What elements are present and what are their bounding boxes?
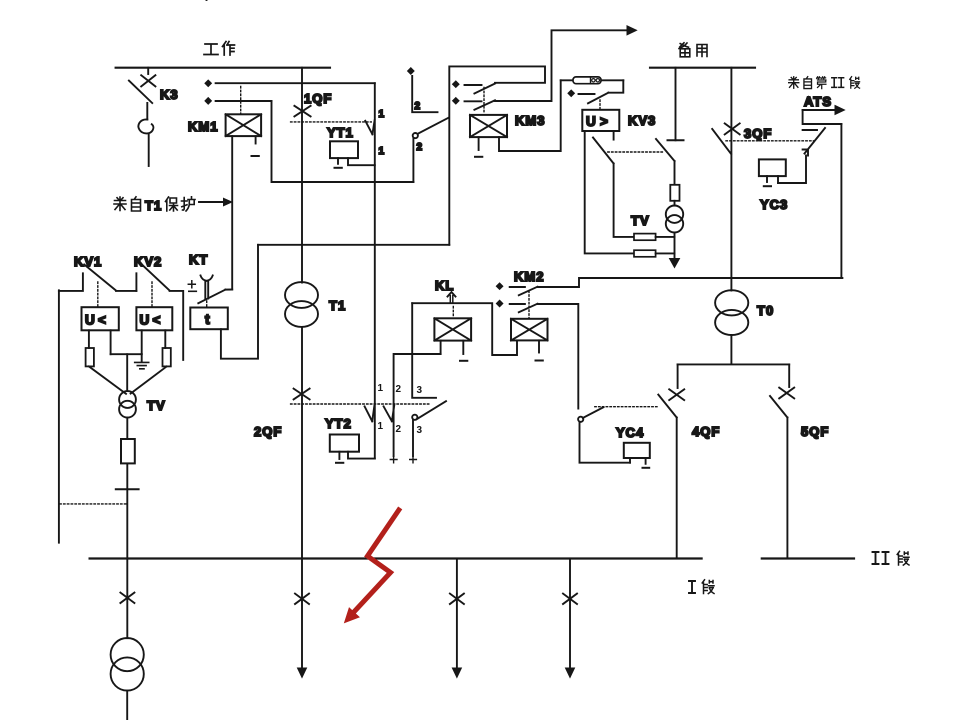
- svg-text:1QF: 1QF: [304, 91, 332, 106]
- svg-text:4QF: 4QF: [692, 424, 720, 439]
- svg-text:1: 1: [379, 109, 385, 120]
- svg-text:2: 2: [417, 142, 423, 153]
- svg-text:1: 1: [379, 146, 385, 157]
- svg-text:YC4: YC4: [616, 425, 644, 440]
- wire fuse to TV primary: [89, 366, 126, 393]
- svg-text:2: 2: [396, 424, 402, 435]
- relay box KV1 (U<): [82, 307, 119, 330]
- svg-text:YT1: YT1: [327, 125, 354, 140]
- actuator arrow above KL: [448, 292, 456, 303]
- svg-text:T1: T1: [145, 198, 162, 213]
- svg-text:T0: T0: [757, 303, 774, 318]
- voltage transformer TV (left): [119, 391, 136, 418]
- wire far-left riser: [58, 290, 60, 542]
- mechanical link YC4 dotted: [595, 406, 659, 408]
- wire TV left down to bus: [126, 418, 128, 559]
- label 工作 (working bus): [204, 42, 235, 56]
- wire KV1 bottom-left to fuse: [88, 330, 90, 348]
- transformer (bottom left): [111, 638, 144, 691]
- svg-text:3QF: 3QF: [744, 126, 772, 141]
- voltage transformer TV (right): [666, 201, 683, 233]
- svg-text:KV3: KV3: [628, 113, 656, 128]
- mechanical link KV3 dotted: [599, 100, 601, 109]
- transformer T1: [285, 282, 318, 327]
- bus: section I bus: [90, 557, 702, 559]
- fuse (below TV left): [121, 439, 135, 463]
- svg-text:3: 3: [417, 425, 423, 436]
- fuse FU5 (TV right lower): [634, 250, 656, 257]
- trip switch contact 3: terminal, pivot, blade: [412, 303, 446, 456]
- svg-text:1: 1: [378, 421, 384, 432]
- mechanical link KV1 dotted: [97, 282, 99, 307]
- svg-text:U: U: [586, 114, 596, 129]
- wire 3QF feeder to T0: [730, 68, 732, 291]
- fuse FU1 (left of TV): [86, 348, 94, 366]
- breaker 3QF blade: [712, 129, 731, 154]
- breaker 2QF X: [294, 389, 310, 400]
- label 来自第II段 (from section II): [789, 77, 860, 89]
- breaker 5QF: [770, 364, 794, 558]
- fault bolt (red lightning arrow): [346, 510, 399, 621]
- trip contact 2 lower V-blade: [384, 404, 395, 421]
- svg-text:KT: KT: [189, 252, 208, 267]
- svg-text:TV: TV: [147, 398, 166, 413]
- wire KM3-aux riser x=449: [449, 66, 545, 244]
- mechanical link KL dotted: [452, 307, 454, 318]
- breaker K3: [129, 68, 156, 166]
- switch YC4-link: pivot and blade: [578, 407, 630, 463]
- feeder breaker X (left transformer feeder): [120, 593, 134, 603]
- svg-text:>: >: [600, 114, 608, 129]
- solenoid YT1: [330, 141, 375, 168]
- svg-text:2QF: 2QF: [254, 424, 282, 439]
- wire ATS riser to control line: [840, 124, 842, 278]
- relay contact KV1: [59, 265, 136, 291]
- svg-text:YC3: YC3: [760, 197, 788, 212]
- mechanical link TV-switch dotted: [60, 503, 126, 505]
- bus: section II bus: [762, 557, 854, 559]
- mechanical link 3QF-ATS dashed: [726, 140, 814, 142]
- svg-text:3: 3: [417, 385, 423, 396]
- svg-text:<: <: [153, 313, 161, 328]
- breaker 1QF X: [294, 106, 310, 117]
- fuse FU6 (standby TV): [670, 185, 679, 201]
- label I段: [689, 580, 714, 594]
- contactor KM2 aux contact row 2: [496, 300, 578, 408]
- contactor coil KM3: [470, 80, 561, 157]
- ground arrow (TV right): [670, 259, 680, 268]
- ATS transfer switch with arrow: [778, 106, 845, 184]
- svg-text:KM3: KM3: [515, 113, 545, 128]
- contactor KM2 aux contact row 1: [496, 278, 842, 295]
- svg-text:T1: T1: [329, 298, 346, 313]
- pin labels 1 2 3 lower row: [378, 421, 423, 436]
- relay contact KV2: [136, 264, 183, 360]
- relay box KV3 (U>): [582, 110, 619, 131]
- wire fuses to TV right: [656, 237, 675, 254]
- breaker 4QF: [658, 364, 684, 558]
- bus: standby section bus: [650, 67, 755, 69]
- wire KV2 bottom-right to fuse: [164, 330, 166, 348]
- relay box KV2 (U<): [136, 307, 172, 330]
- svg-text:5QF: 5QF: [801, 424, 829, 439]
- wire KV1 right / KV2 left bottom rail: [111, 330, 142, 391]
- feeder 3 (x=457) below bus: [450, 559, 464, 678]
- solenoid YC3-lower YC4: [624, 443, 650, 468]
- svg-text:TV: TV: [631, 213, 650, 228]
- trip contact 2 upper: terminal and blade: [207, 0, 449, 182]
- mechanical link KM1 dotted: [240, 87, 242, 115]
- wire feeder T1 upper (1QF line): [301, 68, 303, 283]
- bus: working section bus: [116, 67, 330, 69]
- wire transformer to edge: [126, 691, 128, 720]
- mechanical link KM3 dotted: [483, 88, 485, 115]
- svg-text:2: 2: [396, 384, 402, 395]
- wire fuse to TV primary right: [131, 366, 167, 393]
- svg-text:KM2: KM2: [514, 269, 544, 284]
- fuse FU3 (control supply): [561, 77, 624, 84]
- svg-text:YT2: YT2: [325, 416, 352, 431]
- contactor KM1 aux contact row 1: [205, 80, 375, 87]
- feeder 4 (x=570) below bus: [563, 559, 577, 678]
- contactor coil KM2: [412, 303, 547, 360]
- control rail y=244.8: [258, 244, 449, 246]
- polarity mark + (wire 3 bottom): [410, 456, 417, 463]
- trip contact 1 lower V-blade: [365, 404, 375, 421]
- fuse FU2 (right of TV): [163, 348, 171, 366]
- wire T1 to 2QF to bus I: [301, 327, 303, 559]
- wire TV right to ground: [674, 233, 676, 260]
- label II段: [873, 551, 910, 565]
- wire trip circuit 2 (KL branch): [394, 354, 441, 456]
- svg-text:U: U: [140, 313, 150, 328]
- wire trip circuit 1 (vertical x=375): [374, 83, 376, 458]
- ground (KV measuring circuit): [135, 354, 149, 369]
- pin labels 1 2 3 upper row: [378, 383, 423, 396]
- wire KM1 coil bottom to KT node: [231, 136, 233, 289]
- mechanical link KM2 dotted: [528, 291, 530, 318]
- svg-text:KV2: KV2: [134, 254, 162, 269]
- svg-text:ATS: ATS: [804, 94, 832, 109]
- disconnect switch (standby TV feed): [656, 68, 684, 186]
- contactor KM1 aux contact row 2: [205, 98, 272, 105]
- timer box KT (t): [190, 308, 228, 330]
- wire rail y=182 (YT1 loop bottom): [272, 101, 414, 182]
- solenoid YC3: [759, 159, 786, 186]
- isolator crossbar: [116, 488, 139, 490]
- mechanical link 1QF dashed: [291, 121, 372, 123]
- svg-text:K3: K3: [160, 87, 179, 102]
- feeder 2 (x=302) below bus: [295, 559, 309, 678]
- mechanical link KV2 dotted: [151, 282, 153, 307]
- label 备用 (standby): [679, 43, 707, 57]
- fuse FU4 (TV right upper): [634, 234, 656, 241]
- svg-text:KM1: KM1: [188, 119, 218, 134]
- switch KV3-link blade: [593, 131, 634, 237]
- timer contact KT (delayed, with fork): [188, 276, 232, 304]
- wire T0 secondary split: [678, 335, 790, 364]
- mechanical link 2QF dashed: [291, 403, 429, 405]
- mechanical link KT dotted: [206, 301, 208, 307]
- wire bus I to bottom transformer: [126, 559, 128, 639]
- contactor KM3 aux contact row 1: [452, 81, 495, 94]
- relay contact KV3: [568, 80, 624, 103]
- annotation: 来自T1保护 (from T1 protection) with arrow: [114, 197, 232, 213]
- wire KV3 bottom-left riser: [585, 131, 634, 253]
- svg-text:<: <: [98, 313, 106, 328]
- transformer T0: [715, 290, 748, 335]
- contactor KM3 aux contact row 2: [452, 26, 636, 110]
- mechanical link dotted (KV3 to standby switch): [608, 151, 664, 153]
- trip contact 1 upper V-blade: [365, 120, 374, 134]
- wire KT right branch riser x=258: [221, 245, 258, 359]
- relay coil KL: [434, 318, 471, 361]
- solenoid YT2: [330, 435, 375, 463]
- breaker 3QF X: [725, 123, 740, 134]
- svg-text:U: U: [85, 313, 95, 328]
- contactor coil KM1: [226, 114, 262, 156]
- svg-text:t: t: [205, 311, 210, 327]
- svg-text:1: 1: [378, 383, 384, 394]
- svg-text:2: 2: [415, 101, 421, 112]
- polarity mark + (wire 2 bottom): [390, 456, 397, 463]
